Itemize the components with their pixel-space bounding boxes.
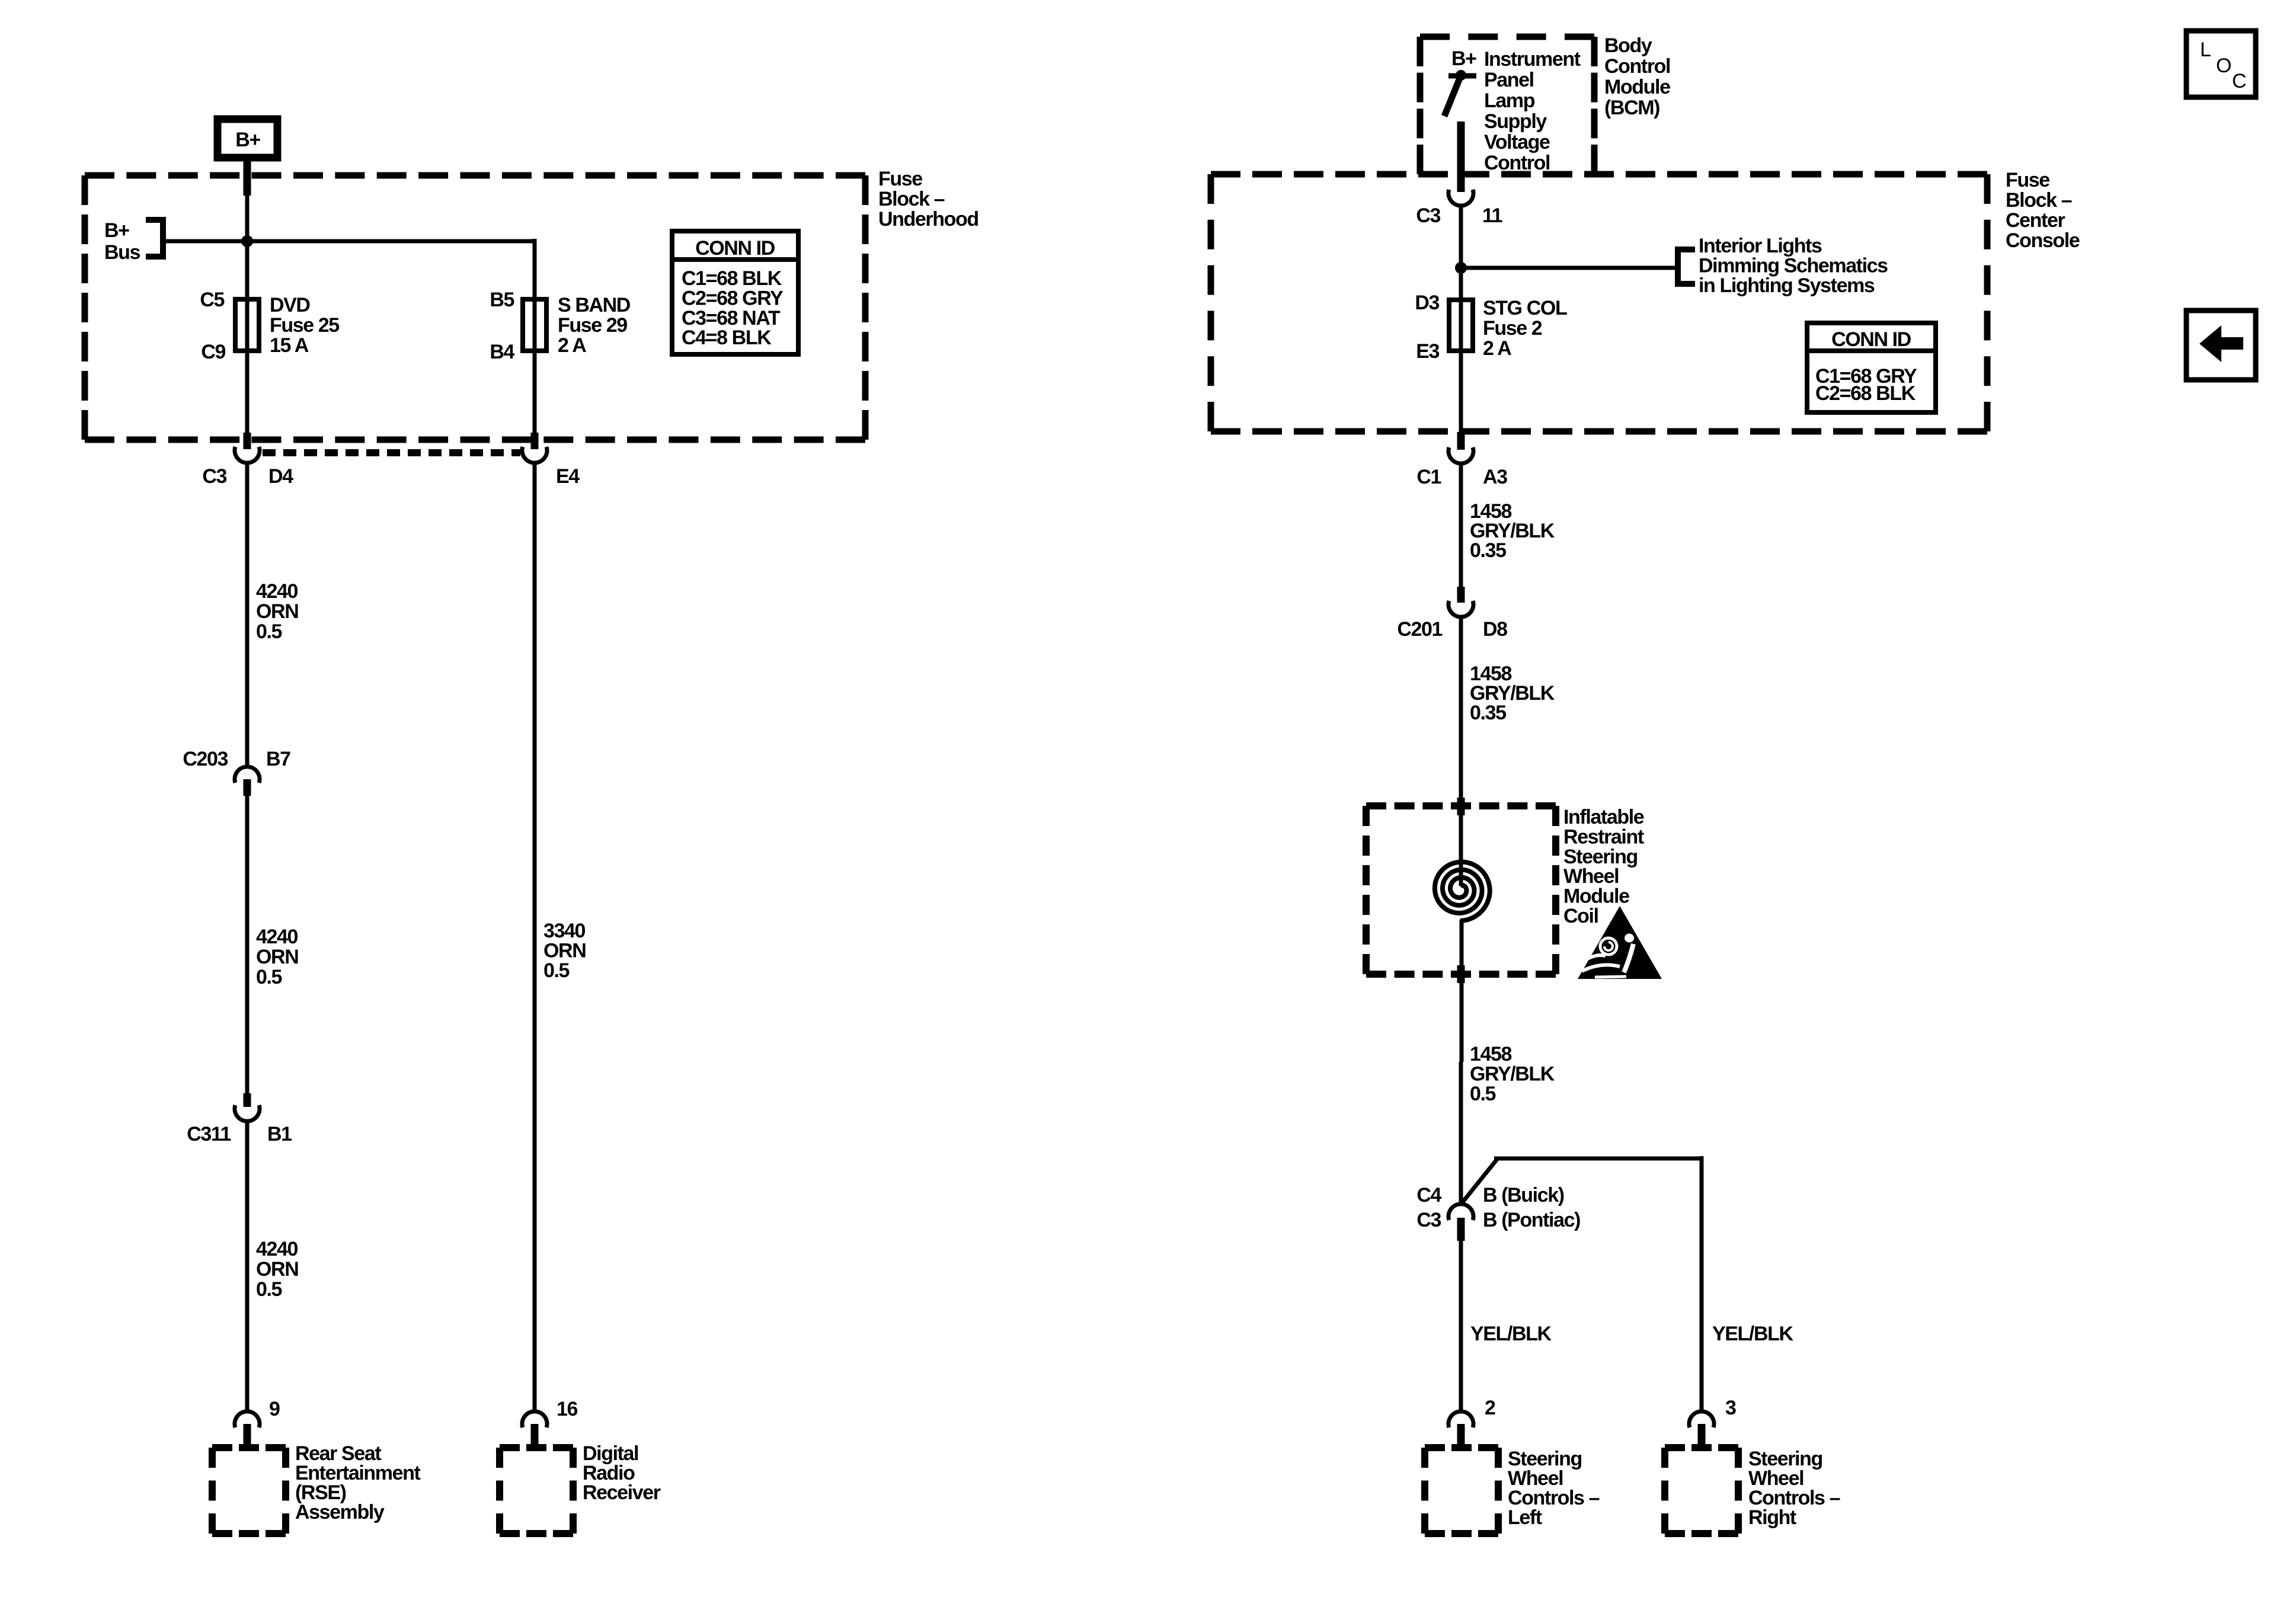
wire S BAND fuse down to connector E4 xyxy=(533,351,537,436)
coil spiral (clockspring) xyxy=(1435,862,1490,921)
svg-text:0.5: 0.5 xyxy=(256,620,282,643)
svg-text:C3: C3 xyxy=(1416,1209,1441,1231)
Fuse Block - Underhood (dashed outline) xyxy=(85,172,865,179)
svg-text:0.5: 0.5 xyxy=(256,1278,282,1301)
svg-text:C4=8 BLK: C4=8 BLK xyxy=(682,327,772,349)
connector pin 3 arc xyxy=(1689,1411,1714,1427)
svg-text:C3=68 NAT: C3=68 NAT xyxy=(682,307,781,329)
svg-text:CONN ID: CONN ID xyxy=(1831,328,1911,351)
connector C4 C3 arc xyxy=(1448,1204,1473,1220)
svg-text:3: 3 xyxy=(1725,1397,1736,1419)
wire STG COL fuse to console boundary xyxy=(1459,351,1463,433)
CONN ID table - center console xyxy=(1807,323,1936,412)
svg-text:Panel: Panel xyxy=(1484,69,1534,91)
svg-text:O: O xyxy=(2216,55,2231,77)
svg-text:0.35: 0.35 xyxy=(1470,702,1506,724)
wire B+ bus down to S BAND fuse xyxy=(533,239,537,299)
wire 1458 GRY/BLK 0.35 segment 1 xyxy=(1459,463,1463,588)
svg-text:4240: 4240 xyxy=(256,1238,298,1260)
svg-text:Inflatable: Inflatable xyxy=(1563,806,1644,828)
node B+ Bus bracket xyxy=(146,220,163,257)
wire out of coil xyxy=(1460,920,1464,1062)
fuse S BAND Fuse 29 2 A xyxy=(523,299,546,351)
connector C1 A3 arc xyxy=(1448,447,1473,463)
connector C4 C3 stub xyxy=(1457,1218,1465,1241)
svg-text:Lamp: Lamp xyxy=(1484,89,1535,112)
dotted connector boundary between D4 and E4 xyxy=(263,449,520,456)
svg-text:D3: D3 xyxy=(1415,292,1439,314)
junction dot interior lights tap xyxy=(1455,262,1467,274)
svg-text:C4: C4 xyxy=(1416,1184,1441,1206)
svg-text:ORN: ORN xyxy=(543,940,586,962)
Body Control Module (BCM) dashed box xyxy=(1420,34,1594,40)
svg-text:D8: D8 xyxy=(1483,618,1507,641)
svg-text:16: 16 xyxy=(557,1398,578,1420)
svg-text:Bus: Bus xyxy=(104,241,140,264)
connector C3 11 arc xyxy=(1448,190,1473,206)
svg-text:Control: Control xyxy=(1484,152,1550,174)
svg-text:D4: D4 xyxy=(268,465,293,488)
svg-text:S BAND: S BAND xyxy=(558,294,631,316)
connector C311 B1 stub xyxy=(244,1093,251,1107)
svg-text:C2=68 GRY: C2=68 GRY xyxy=(682,287,784,309)
svg-text:CONN ID: CONN ID xyxy=(695,237,775,260)
svg-text:Fuse 2: Fuse 2 xyxy=(1483,317,1542,340)
svg-text:Console: Console xyxy=(2006,229,2080,252)
svg-text:C: C xyxy=(2232,70,2246,92)
wire 3340 ORN xyxy=(533,463,537,1412)
svg-text:C201: C201 xyxy=(1397,618,1442,641)
svg-text:L: L xyxy=(2200,39,2211,61)
fuse DVD Fuse 25 15 A xyxy=(235,299,259,351)
svg-text:Fuse 25: Fuse 25 xyxy=(270,314,339,337)
connector pin 3 stub xyxy=(1698,1424,1706,1449)
wire DVD fuse down to connector D4 xyxy=(245,351,250,436)
wire C3-11 down to junction xyxy=(1459,206,1463,300)
wire 1458 GRY/BLK 0.35 segment 2 xyxy=(1459,617,1463,860)
svg-text:C311: C311 xyxy=(187,1123,231,1145)
connector pin 16 arc xyxy=(522,1411,547,1427)
Steering Wheel Controls - Right box xyxy=(1665,1444,1738,1451)
connector C311 B1 arc xyxy=(235,1105,260,1121)
svg-text:C9: C9 xyxy=(201,341,225,363)
svg-text:Voltage: Voltage xyxy=(1484,131,1550,153)
stub crossing coil box top xyxy=(1457,798,1465,815)
bracket interior lights reference xyxy=(1678,249,1695,284)
wire 4240 ORN segment 2 xyxy=(245,796,250,1093)
svg-text:Restraint: Restraint xyxy=(1563,825,1644,848)
connector C203 B7 stub xyxy=(244,779,251,796)
wire branch horizontal xyxy=(1494,1157,1702,1161)
svg-text:C1=68 BLK: C1=68 BLK xyxy=(682,267,782,290)
wire switch down through BCM boundary xyxy=(1457,121,1465,192)
svg-text:DVD: DVD xyxy=(270,294,310,316)
svg-text:E3: E3 xyxy=(1416,340,1439,363)
connector pin 2 arc xyxy=(1448,1411,1473,1427)
connector pin 9 stub xyxy=(244,1424,251,1449)
svg-text:B (Buick): B (Buick) xyxy=(1483,1184,1564,1206)
svg-text:B1: B1 xyxy=(267,1123,292,1145)
svg-text:Block –: Block – xyxy=(878,188,945,210)
svg-text:GRY/BLK: GRY/BLK xyxy=(1470,1063,1555,1086)
svg-text:Receiver: Receiver xyxy=(583,1481,661,1504)
SIR airbag warning triangle xyxy=(1578,906,1662,979)
svg-text:11: 11 xyxy=(1482,204,1502,227)
Digital Radio Receiver box xyxy=(500,1444,573,1451)
Fuse Block - Center Console dashed box xyxy=(1211,171,1987,178)
svg-text:ORN: ORN xyxy=(256,1258,298,1281)
connector pin 2 stub xyxy=(1457,1424,1465,1449)
svg-text:Body: Body xyxy=(1604,34,1652,57)
svg-text:STG COL: STG COL xyxy=(1483,297,1567,319)
wire 4240 ORN segment 1 xyxy=(245,463,250,766)
switch Instrument Panel Lamp Supply Voltage Control xyxy=(1448,73,1476,79)
svg-text:Steering: Steering xyxy=(1563,846,1638,868)
connector pin 16 stub xyxy=(531,1424,539,1449)
connector E4 arc xyxy=(522,447,547,463)
svg-text:Module: Module xyxy=(1563,885,1629,908)
wire 1458 GRY/BLK 0.5 segment xyxy=(1459,1062,1463,1205)
svg-text:B5: B5 xyxy=(490,289,514,311)
svg-text:Wheel: Wheel xyxy=(1563,865,1619,888)
svg-text:Center: Center xyxy=(2006,209,2065,232)
svg-text:Right: Right xyxy=(1748,1506,1796,1529)
svg-text:1458: 1458 xyxy=(1470,1043,1512,1065)
svg-text:15 A: 15 A xyxy=(270,334,309,357)
svg-text:Dimming Schematics: Dimming Schematics xyxy=(1699,255,1888,277)
power symbol B+ feed xyxy=(218,119,277,158)
svg-text:E4: E4 xyxy=(556,465,580,488)
wire branch vertical to pin 3 xyxy=(1700,1156,1704,1412)
junction dot B+ bus / DVD fuse feed xyxy=(241,235,253,247)
Inflatable Restraint Steering Wheel Module Coil dashed box xyxy=(1366,802,1556,809)
Steering Wheel Controls - Left box xyxy=(1425,1444,1498,1451)
connector C201 D8 stub xyxy=(1457,587,1465,603)
svg-text:B (Pontiac): B (Pontiac) xyxy=(1483,1209,1580,1231)
svg-text:Interior Lights: Interior Lights xyxy=(1699,235,1822,257)
svg-text:ORN: ORN xyxy=(256,600,298,623)
svg-text:C2=68 BLK: C2=68 BLK xyxy=(1815,382,1916,405)
svg-text:Block –: Block – xyxy=(2006,189,2072,212)
CONN ID table - underhood xyxy=(672,231,798,354)
svg-text:(BCM): (BCM) xyxy=(1604,97,1659,119)
svg-text:4240: 4240 xyxy=(256,926,298,948)
svg-text:0.5: 0.5 xyxy=(1470,1083,1496,1105)
svg-text:4240: 4240 xyxy=(256,580,298,603)
svg-text:0.5: 0.5 xyxy=(256,966,282,988)
connector pin 9 arc xyxy=(235,1411,260,1427)
wire to interior lights dimming reference xyxy=(1461,266,1675,270)
wire branch diagonal xyxy=(1462,1158,1498,1204)
svg-text:Module: Module xyxy=(1604,76,1670,98)
svg-text:Fuse: Fuse xyxy=(2006,169,2049,191)
svg-text:C3: C3 xyxy=(1416,204,1440,227)
svg-text:Assembly: Assembly xyxy=(295,1501,385,1523)
svg-text:C203: C203 xyxy=(183,748,228,770)
LOC legend box xyxy=(2186,31,2256,97)
svg-text:YEL/BLK: YEL/BLK xyxy=(1712,1323,1793,1345)
svg-text:2 A: 2 A xyxy=(558,334,586,357)
svg-text:Coil: Coil xyxy=(1563,905,1598,927)
svg-text:in Lighting Systems: in Lighting Systems xyxy=(1699,274,1875,297)
svg-text:Fuse: Fuse xyxy=(878,168,922,190)
svg-text:A3: A3 xyxy=(1483,466,1507,488)
svg-text:B4: B4 xyxy=(490,341,514,363)
fuse STG COL Fuse 2 2 A xyxy=(1449,300,1473,351)
connector C203 B7 arc xyxy=(235,767,260,783)
connector C3 D4 stub xyxy=(244,433,251,449)
svg-text:9: 9 xyxy=(269,1398,280,1420)
svg-text:B+: B+ xyxy=(1451,47,1476,70)
wire 4240 ORN segment 3 xyxy=(245,1121,250,1412)
svg-text:YEL/BLK: YEL/BLK xyxy=(1470,1323,1552,1345)
svg-text:Control: Control xyxy=(1604,55,1670,78)
svg-text:C5: C5 xyxy=(200,289,224,311)
svg-text:B7: B7 xyxy=(266,748,290,770)
connector E4 stub xyxy=(531,433,539,449)
svg-text:Supply: Supply xyxy=(1484,110,1547,133)
svg-text:B+: B+ xyxy=(235,129,260,151)
svg-text:0.5: 0.5 xyxy=(543,959,570,982)
svg-text:Underhood: Underhood xyxy=(878,208,978,231)
connector C201 D8 arc xyxy=(1448,601,1473,617)
connector C3 D4 arc xyxy=(235,447,260,463)
svg-text:0.35: 0.35 xyxy=(1470,539,1506,562)
Rear Seat Entertainment (RSE) Assembly box xyxy=(212,1444,286,1451)
back arrow box xyxy=(2186,311,2256,380)
wire B+ bus horizontal xyxy=(166,239,535,244)
svg-text:2: 2 xyxy=(1485,1397,1495,1419)
svg-text:2 A: 2 A xyxy=(1483,337,1511,360)
svg-text:C3: C3 xyxy=(202,465,226,488)
svg-text:Instrument: Instrument xyxy=(1484,48,1581,71)
wire B+ feed down to B+ bus junction xyxy=(244,158,251,196)
connector C1 A3 stub xyxy=(1457,432,1465,450)
svg-text:Left: Left xyxy=(1508,1506,1542,1529)
wire YEL/BLK left xyxy=(1459,1241,1463,1412)
svg-text:ORN: ORN xyxy=(256,946,298,968)
wire into coil center xyxy=(1459,860,1463,886)
stub crossing coil box bottom xyxy=(1457,965,1465,983)
svg-text:Fuse 29: Fuse 29 xyxy=(558,314,627,337)
svg-text:3340: 3340 xyxy=(543,920,586,942)
svg-text:B+: B+ xyxy=(104,219,129,242)
svg-text:C1: C1 xyxy=(1416,466,1441,488)
